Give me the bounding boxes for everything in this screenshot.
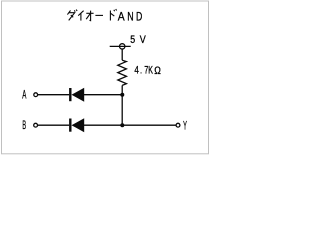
svg-text:Y: Y [183, 120, 187, 132]
title katakana long vowel bar [95, 14, 103, 16]
input terminal A circle [34, 93, 38, 97]
input terminal B circle [34, 123, 38, 127]
resistor R1 zigzag [118, 60, 127, 85]
svg-text:5: 5 [130, 34, 135, 46]
title katakana DO [110, 9, 116, 20]
svg-text:.: . [140, 64, 142, 76]
diode D1 triangle [72, 88, 85, 102]
svg-text:V: V [140, 34, 147, 46]
svg-text:Ω: Ω [154, 65, 161, 77]
junction dot row B [120, 123, 124, 127]
wire 5V horizontal stub [110, 45, 131, 47]
svg-text:4: 4 [134, 64, 139, 76]
diode D2 cathode bar [69, 119, 71, 132]
svg-text:A: A [118, 10, 125, 24]
wire resistor bottom to node B row [121, 85, 123, 125]
title katakana I [78, 11, 83, 21]
wire diode D2 to output Y [84, 124, 176, 126]
wire from 5V circle down to resistor [121, 49, 123, 60]
power terminal 5V circle [120, 44, 125, 49]
junction dot row A [120, 93, 124, 97]
svg-text:B: B [22, 120, 26, 132]
wire diode D1 to node [84, 94, 122, 96]
title letters AND [118, 10, 143, 24]
diode D2 triangle [72, 118, 85, 132]
diode D1 cathode bar [69, 88, 71, 101]
output terminal Y circle [176, 123, 180, 127]
svg-text:A: A [22, 89, 26, 101]
svg-text:N: N [127, 10, 133, 24]
wire B to diode D2 [38, 124, 70, 126]
svg-text:K: K [148, 64, 153, 76]
svg-text:D: D [136, 10, 143, 24]
title katakana DA [67, 10, 77, 21]
frame border [2, 1, 209, 154]
label 5 V [130, 34, 146, 46]
title katakana O [86, 11, 93, 21]
wire A to diode D1 [38, 94, 70, 96]
label 4.7K ohm [134, 64, 161, 76]
